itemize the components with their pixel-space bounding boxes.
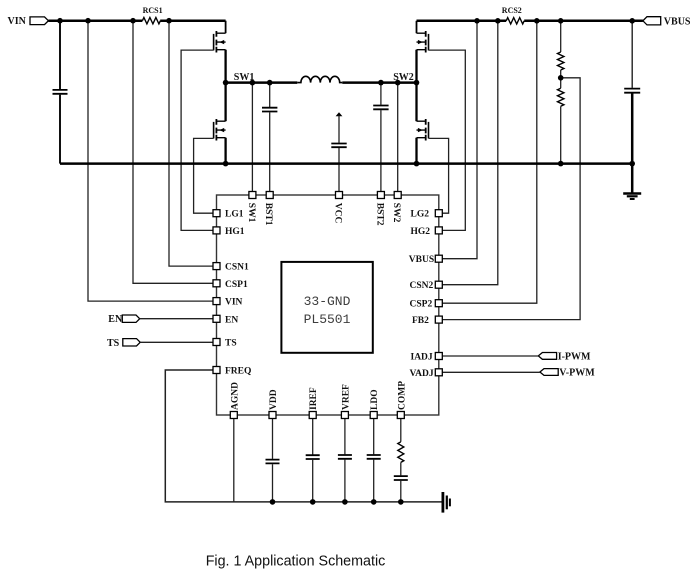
resistor R-div-top [558, 21, 564, 70]
transistor Q2 low-side left [214, 119, 226, 141]
capacitor C-VCC [331, 144, 346, 192]
svg-text:CSN2: CSN2 [410, 281, 434, 291]
connector V-PWM [540, 368, 595, 379]
pin LG2 [411, 210, 443, 220]
svg-text:VIN: VIN [225, 298, 243, 308]
svg-text:CSN1: CSN1 [225, 263, 249, 273]
resistor R-div-bottom [558, 70, 564, 164]
connector VIN [8, 16, 49, 27]
wire LG2 gate lead and riser [429, 138, 449, 213]
svg-text:CSP2: CSP2 [410, 300, 433, 310]
svg-text:RCS1: RCS1 [143, 6, 163, 15]
svg-text:IREF: IREF [309, 387, 319, 410]
wire ground rail [60, 162, 632, 165]
wire riser to VIN pin [88, 21, 214, 301]
capacitor C-COMP [394, 462, 408, 502]
svg-text:VADJ: VADJ [410, 369, 434, 379]
IC U1 body [217, 195, 439, 415]
connector I-PWM [538, 351, 591, 362]
wire CSN2 pin riser [441, 21, 498, 285]
capacitor C-out [624, 21, 640, 193]
pin LDO [370, 389, 380, 418]
svg-text:Fig. 1 Application Schematic: Fig. 1 Application Schematic [206, 553, 386, 569]
wire riser to CSP1 pin [133, 21, 214, 284]
svg-text:FREQ: FREQ [225, 367, 251, 377]
pin CSP2 [410, 300, 443, 310]
connector TS [107, 338, 140, 349]
pin CSP1 [213, 280, 248, 290]
pin FREQ [213, 367, 251, 377]
wire FB2 tap riser [441, 78, 580, 320]
capacitor C-VDD [266, 419, 280, 502]
pin CSN2 [410, 281, 443, 291]
svg-text:VDD: VDD [269, 389, 279, 410]
svg-text:HG1: HG1 [225, 227, 245, 237]
svg-text:I-PWM: I-PWM [558, 351, 591, 362]
wire Q3 source to SW2 node [415, 50, 417, 83]
svg-text:VIN: VIN [8, 16, 27, 27]
wire SW1 node to Q2 drain [224, 83, 226, 122]
connector EN [108, 314, 139, 325]
capacitor C-LDO [367, 419, 381, 502]
pin IADJ [411, 353, 443, 363]
pin EN [213, 315, 238, 325]
wire FREQ to bottom rail [165, 370, 443, 502]
pin HG1 [213, 227, 245, 237]
wire VIN top rail [48, 19, 225, 22]
pin AGND [230, 382, 240, 419]
svg-text:LG2: LG2 [411, 210, 430, 220]
resistor RCS2 [502, 6, 524, 24]
svg-text:VBUS: VBUS [664, 16, 691, 27]
pin VIN [213, 298, 243, 308]
wire EN [140, 318, 214, 320]
svg-text:TS: TS [107, 338, 120, 349]
svg-text:VCC: VCC [333, 203, 343, 224]
svg-text:VBUS: VBUS [409, 255, 434, 265]
wire IADJ [441, 355, 538, 357]
pin LG1 [213, 210, 244, 220]
wire VBUS top rail [417, 20, 643, 23]
resistor R-COMP [398, 419, 404, 463]
wire AGND riser [233, 419, 235, 502]
pin VCC [333, 192, 343, 224]
transistor Q3 high-side right [417, 21, 429, 53]
svg-text:HG2: HG2 [411, 227, 431, 237]
svg-text:SW1: SW1 [246, 203, 256, 223]
svg-text:BST2: BST2 [374, 203, 384, 226]
wire LG1 gate lead and riser [194, 138, 214, 213]
svg-text:SW2: SW2 [391, 203, 401, 223]
pin HG2 [411, 227, 443, 237]
svg-text:LG1: LG1 [225, 210, 244, 220]
capacitor C-BST2 [373, 83, 388, 192]
svg-text:LDO: LDO [370, 389, 380, 410]
svg-text:PL5501: PL5501 [304, 312, 351, 327]
svg-text:BST1: BST1 [263, 203, 273, 226]
svg-text:CSP1: CSP1 [225, 280, 248, 290]
pin CSN1 [213, 263, 249, 273]
wire riser to CSN1 pin [169, 21, 214, 266]
wire CSP2 pin riser [441, 21, 537, 303]
pin FB2 [412, 316, 442, 326]
connector VBUS [643, 16, 691, 27]
pin TS [213, 339, 237, 349]
wire SW2 node to Q4 drain [415, 83, 417, 122]
pin VDD [269, 389, 279, 418]
pin SW2 [391, 192, 401, 223]
resistor RCS1 [142, 6, 162, 24]
wire TS [140, 341, 213, 343]
wire Q4 source to ground rail [415, 138, 417, 164]
inductor L1 [297, 76, 342, 82]
wire SW1 pin riser [251, 83, 253, 192]
svg-text:V-PWM: V-PWM [559, 368, 595, 379]
capacitor C-in [53, 21, 68, 164]
power arrow VCC [336, 112, 343, 143]
transistor Q1 high-side left [214, 21, 226, 53]
pin SW1 [246, 192, 256, 223]
svg-text:AGND: AGND [230, 382, 240, 410]
pin VADJ [410, 369, 443, 379]
svg-text:FB2: FB2 [412, 316, 429, 326]
node SW1 [226, 72, 298, 83]
wire VADJ [441, 371, 540, 373]
svg-text:RCS2: RCS2 [502, 6, 522, 15]
wire HG1 gate lead and riser [181, 50, 214, 230]
svg-text:33-GND: 33-GND [304, 294, 351, 309]
svg-text:EN: EN [108, 314, 123, 325]
wire Q2 source to ground rail [224, 138, 226, 164]
wire VBUS pin riser [441, 21, 477, 259]
svg-text:EN: EN [225, 315, 238, 325]
ground output [623, 194, 641, 200]
node SW2 wire [342, 72, 416, 83]
wire Q1 source to SW1 node [224, 50, 226, 83]
wire HG2 gate lead and riser [429, 50, 466, 230]
svg-text:VREF: VREF [341, 384, 351, 410]
capacitor C-VREF [338, 419, 352, 502]
pin COMP [397, 381, 407, 419]
pin BST2 [374, 192, 384, 226]
capacitor C-BST1 [262, 83, 277, 192]
pin VBUS [409, 255, 443, 265]
capacitor C-IREF [306, 419, 320, 502]
svg-text:COMP: COMP [397, 381, 407, 410]
transistor Q4 low-side right [417, 119, 429, 141]
wire SW2 pin riser [397, 83, 399, 192]
pin BST1 [263, 192, 273, 226]
ground bottom [443, 492, 450, 513]
svg-text:IADJ: IADJ [411, 353, 433, 363]
svg-text:TS: TS [225, 339, 237, 349]
pin VREF [341, 384, 351, 419]
pin IREF [309, 387, 319, 418]
